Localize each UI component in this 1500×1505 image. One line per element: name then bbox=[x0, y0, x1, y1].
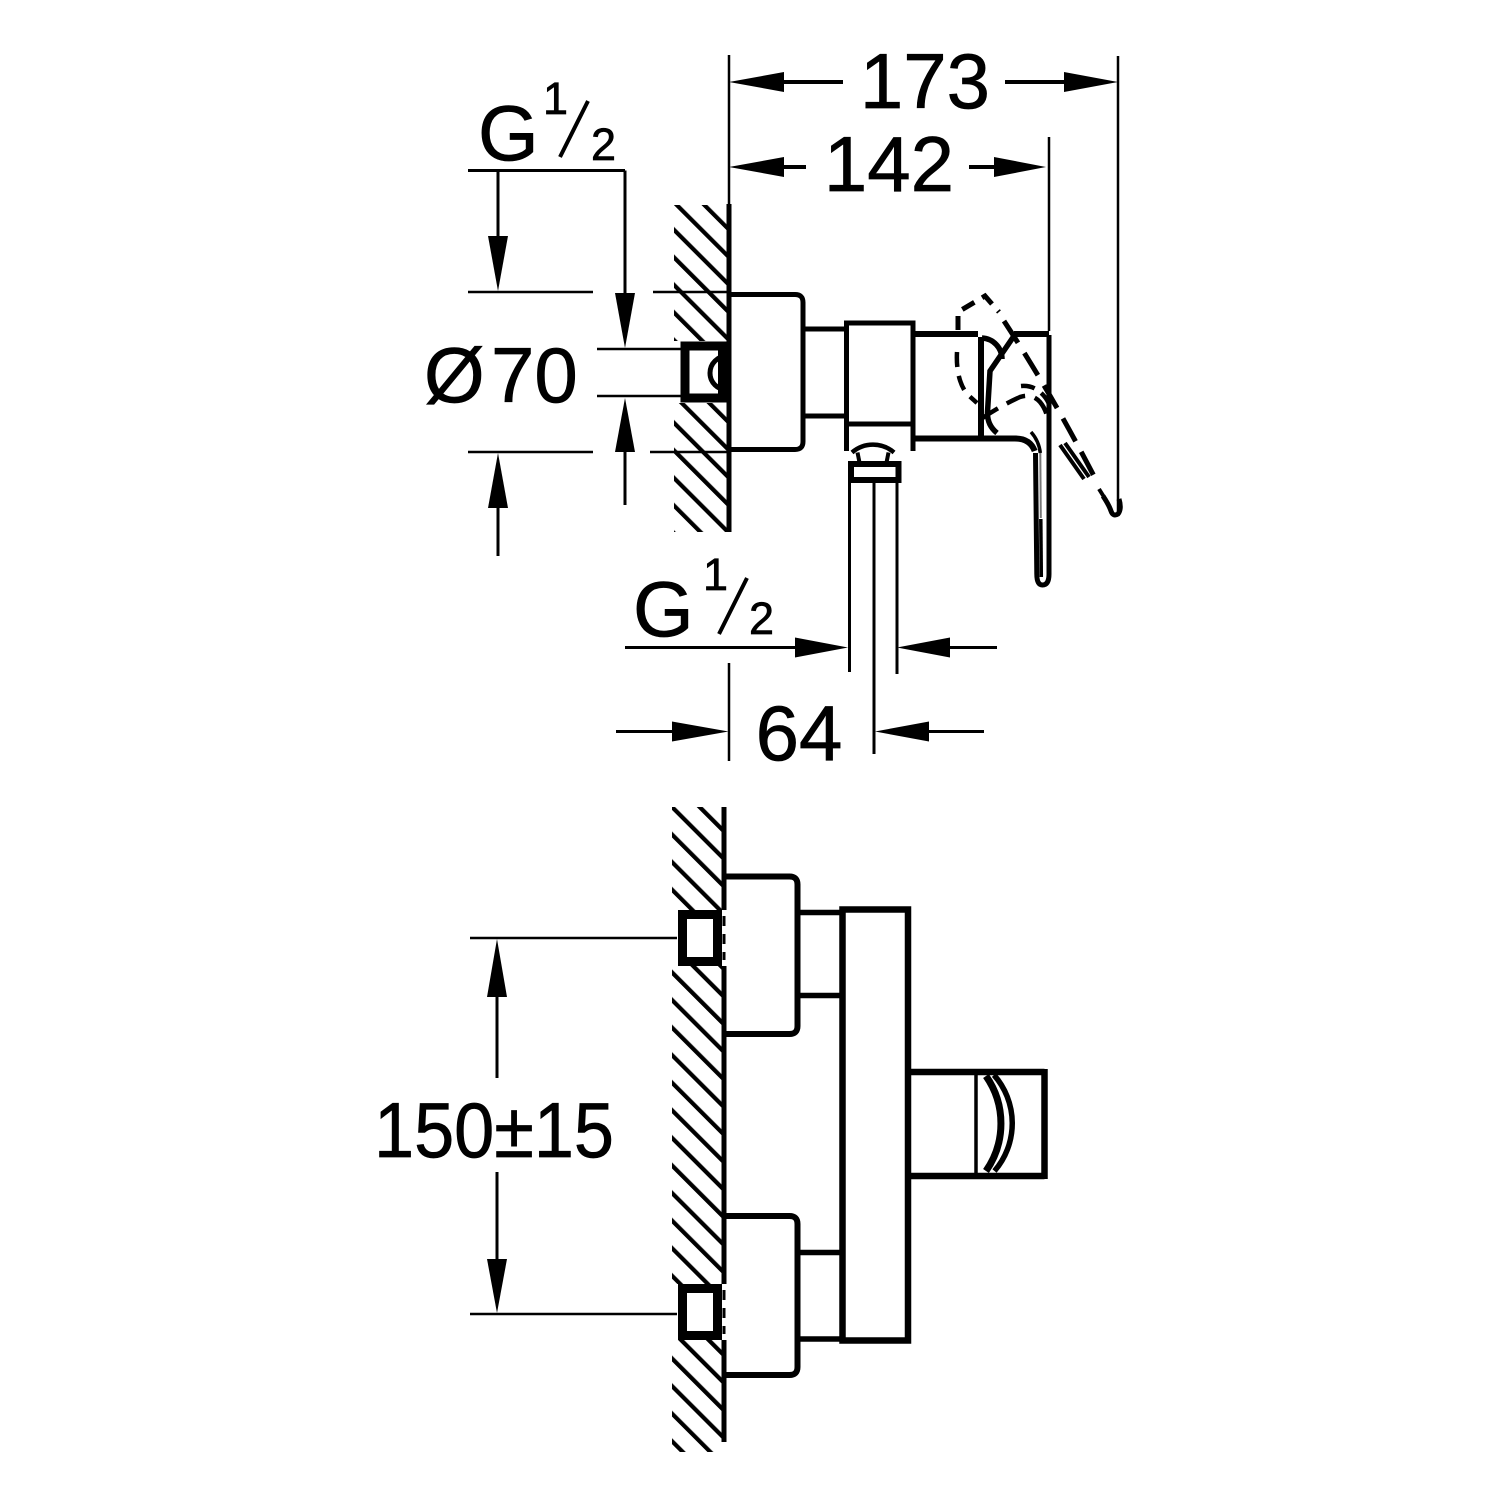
escutcheon flange (side view) bbox=[729, 295, 804, 450]
diameter 70 dim down arrow bbox=[497, 172, 500, 237]
hose centerline bbox=[873, 483, 876, 754]
label G 1/2 leader line bbox=[468, 169, 625, 172]
wall hidden line through lower union bbox=[723, 1290, 726, 1334]
wall face line (top view) bbox=[727, 204, 732, 532]
lower G 1/2 right arrow bbox=[897, 638, 950, 658]
svg-text:1: 1 bbox=[543, 73, 568, 124]
diameter 70 dim up arrow bbox=[488, 453, 508, 508]
handle end-on right edge bbox=[1041, 1069, 1048, 1179]
dimension 142 line right bbox=[969, 165, 994, 169]
G 1/2 thread top leader line bbox=[597, 348, 684, 351]
svg-text:1: 1 bbox=[703, 549, 728, 600]
lever blade outline bbox=[1036, 335, 1050, 585]
dashed lever inner segment bbox=[1060, 445, 1084, 479]
lower union square bbox=[683, 1289, 718, 1336]
svg-text:2: 2 bbox=[749, 593, 774, 644]
neck bottom line bbox=[803, 414, 846, 419]
dimension 142 extension line bbox=[1048, 137, 1051, 331]
dimension 150 up arrow bbox=[487, 939, 507, 997]
dimension 150 extension line top bbox=[470, 937, 677, 940]
handle crescent inner arc bbox=[994, 1075, 1012, 1171]
upper neck bottom line bbox=[798, 993, 843, 999]
dashed lever top edge (raised) bbox=[1004, 321, 1097, 482]
hose nipple right line bbox=[896, 483, 899, 674]
wall hatch band top (bottom view) bbox=[672, 807, 722, 910]
wall hatch upper band (top view) bbox=[674, 205, 727, 341]
dimension 173 line left bbox=[729, 72, 784, 92]
dimension 173 extension line bbox=[1117, 56, 1120, 511]
body bottom line and lever elbow bbox=[913, 439, 1035, 452]
dashed dome hidden arc bbox=[957, 352, 977, 403]
nipple taper left bbox=[858, 453, 860, 463]
dimension 173 line right bbox=[1005, 80, 1064, 84]
dashed knob (raised lever) bbox=[958, 296, 999, 330]
upper union square bbox=[683, 915, 718, 962]
valve block bbox=[847, 323, 914, 451]
lower neck bottom line bbox=[798, 1336, 843, 1342]
valve block seam bbox=[847, 422, 914, 427]
svg-text:G: G bbox=[633, 565, 694, 653]
G 1/2 thread dim up arrow bbox=[615, 398, 635, 452]
lower neck top line bbox=[798, 1250, 843, 1256]
lever inner line upper bbox=[1039, 453, 1042, 518]
handle end-on top line bbox=[908, 1069, 1045, 1076]
G 1/2 thread dim down arrow bbox=[624, 171, 627, 295]
body top line bbox=[913, 331, 978, 337]
lever hub top line bbox=[1014, 331, 1049, 337]
union square (side view) bbox=[685, 346, 723, 398]
handle cap divider bbox=[974, 1075, 978, 1173]
dashed hump bbox=[1021, 386, 1049, 404]
wall hatch band bottom (bottom view) bbox=[672, 1340, 722, 1452]
dimension 142 line left bbox=[729, 157, 784, 177]
dimension 64 right arrow bbox=[875, 722, 929, 742]
neck top line bbox=[803, 327, 846, 332]
hose nipple left line bbox=[848, 483, 851, 672]
lever hub front edge bbox=[987, 333, 1016, 433]
body plate bbox=[843, 910, 909, 1341]
dimension 64 left arrow bbox=[616, 730, 672, 733]
upper escutcheon flange (front view) bbox=[726, 877, 798, 1035]
lower escutcheon flange (front view) bbox=[726, 1216, 798, 1375]
svg-text:142: 142 bbox=[824, 120, 954, 208]
wall hatch lower band (top view) bbox=[674, 403, 727, 532]
dimension 150 down arrow bbox=[496, 1172, 499, 1259]
body end face bbox=[978, 337, 984, 436]
wall hatch band middle (bottom view) bbox=[672, 966, 722, 1284]
hose nut bbox=[851, 464, 899, 480]
nipple taper right bbox=[887, 453, 889, 463]
diameter 70 extension line top bbox=[468, 291, 593, 294]
svg-text:173: 173 bbox=[860, 37, 990, 125]
svg-text:70: 70 bbox=[491, 331, 578, 419]
lower G 1/2 leader line and arrow bbox=[625, 646, 795, 649]
lever inner line lower bbox=[1039, 519, 1043, 577]
svg-text:64: 64 bbox=[756, 689, 843, 777]
upper neck top line bbox=[798, 910, 843, 916]
svg-text:G: G bbox=[478, 89, 539, 177]
dashed lever bottom edge (raised) bbox=[981, 396, 1047, 419]
lever inner elbow curve bbox=[1031, 432, 1040, 453]
diameter 70 extension line bottom bbox=[468, 451, 593, 454]
svg-text:Ø: Ø bbox=[424, 331, 485, 419]
dimension 150 extension line bottom bbox=[470, 1313, 677, 1316]
wall face line (bottom view) bbox=[722, 807, 727, 910]
wall hidden line through upper union bbox=[723, 916, 726, 960]
cap arc bbox=[982, 338, 1002, 359]
dimension 64 extension line (wall) bbox=[728, 663, 731, 761]
dashed lever tip curl bbox=[1103, 496, 1120, 515]
svg-text:150±15: 150±15 bbox=[374, 1086, 614, 1174]
svg-text:2: 2 bbox=[591, 119, 616, 170]
handle end-on bottom line bbox=[908, 1173, 1045, 1180]
handle crescent outer arc bbox=[986, 1076, 1001, 1171]
union hole arc bbox=[710, 356, 727, 390]
wire: wall face extension line (top) bbox=[728, 55, 731, 205]
G 1/2 thread bottom leader line bbox=[597, 395, 684, 398]
valve block dome bbox=[852, 445, 894, 453]
